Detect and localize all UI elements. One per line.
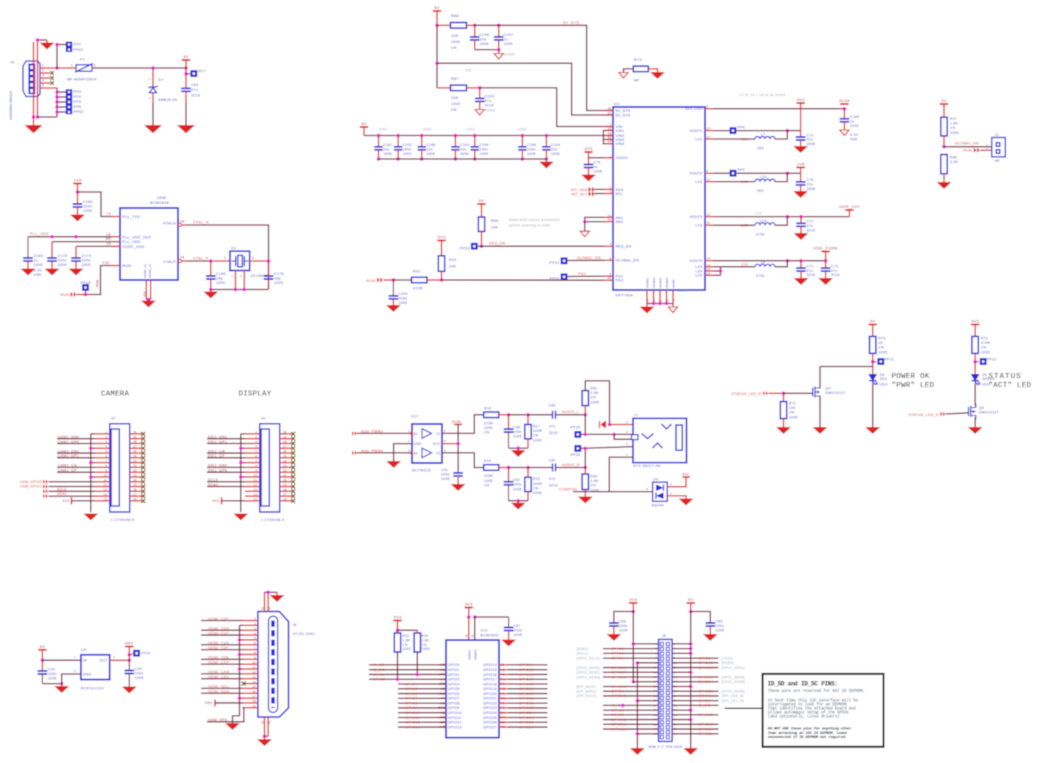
svg-text:1-1734248-5: 1-1734248-5: [261, 518, 285, 522]
capacitor C178 18p 1005: [268, 261, 270, 276]
power symbol H5V: [125, 646, 133, 648]
svg-text:HDMI_T1P: HDMI_T1P: [208, 631, 229, 635]
svg-text:13: 13: [253, 488, 257, 492]
svg-text:1.8K: 1.8K: [403, 638, 411, 642]
svg-text:AGND: AGND: [485, 109, 496, 113]
svg-text:COMPVID: COMPVID: [559, 487, 578, 491]
pin XTALN with ring: [178, 224, 186, 226]
power symbol 5V R86: [477, 203, 485, 205]
svg-text:RED: RED: [880, 377, 888, 381]
svg-text:GPIO10: GPIO10: [448, 711, 462, 715]
junction 5V bus: [689, 610, 693, 614]
svg-text:21: 21: [283, 473, 287, 477]
svg-text:GPIO21: GPIO21: [519, 697, 534, 701]
svg-text:GPIO13: GPIO13: [405, 725, 420, 729]
svg-text:GPIO0: GPIO0: [448, 663, 460, 667]
ground R66: [938, 183, 951, 189]
power symbol 5V input filter: [433, 10, 441, 12]
svg-text:C41: C41: [441, 468, 448, 472]
svg-text:3V3: 3V3: [797, 97, 805, 102]
svg-text:1005: 1005: [484, 479, 493, 483]
svg-text:(GPIO_GEN3): (GPIO_GEN3): [576, 675, 600, 679]
svg-text:HDMI_HPD: HDMI_HPD: [208, 718, 228, 722]
wire VOUT2: [714, 172, 788, 174]
svg-text:GPIO24: GPIO24: [698, 680, 713, 684]
svg-text:AUDIO_R: AUDIO_R: [562, 463, 580, 467]
svg-text:1005: 1005: [135, 676, 144, 680]
svg-text:100n: 100n: [513, 483, 522, 487]
junction R61 bottom: [584, 413, 588, 417]
power symbol 5V U9: [38, 649, 46, 651]
svg-text:3: 3: [105, 440, 107, 444]
wire AUDIO_L: [556, 414, 586, 416]
test point PP10: [873, 361, 877, 363]
svg-text:24: 24: [133, 459, 137, 463]
svg-text:NF: NF: [995, 159, 1001, 163]
svg-text:VCC: VCC: [433, 442, 441, 446]
junction VOUT2/L14: [786, 171, 790, 175]
svg-text:GLOBAL_EN: GLOBAL_EN: [955, 142, 979, 146]
junction VDDIO riser: [467, 615, 471, 619]
shield pins J6 bottom: [264, 717, 266, 736]
svg-text:STATUS: STATUS: [988, 373, 1021, 381]
wire 5V_SYS to U3: [475, 25, 613, 110]
svg-text:HDMI_CKN: HDMI_CKN: [208, 670, 230, 674]
connector J4 15-pin FFC: [260, 424, 280, 512]
svg-text:HDMI_T0N: HDMI_T0N: [208, 656, 229, 660]
pins J3 left: [95, 433, 110, 435]
svg-text:U1C: U1C: [480, 629, 488, 633]
svg-text:BAV99: BAV99: [652, 504, 664, 508]
capacitor C41 100n 1005: [453, 472, 463, 474]
svg-text:GPIO15: GPIO15: [519, 668, 534, 672]
svg-text:SDA0: SDA0: [208, 483, 219, 487]
svg-text:DSI1_CP: DSI1_CP: [208, 454, 225, 458]
svg-text:23: 23: [133, 464, 137, 468]
svg-text:1608: 1608: [480, 42, 489, 46]
svg-text:4: 4: [626, 430, 628, 434]
svg-text:7: 7: [105, 459, 107, 463]
svg-text:R88: R88: [451, 14, 459, 18]
svg-text:3216: 3216: [549, 431, 558, 435]
svg-text:5V: 5V: [361, 121, 367, 126]
svg-text:31: 31: [470, 634, 474, 638]
svg-text:DISPLAY: DISPLAY: [239, 391, 272, 399]
svg-text:CAM_GPIO1: CAM_GPIO1: [20, 485, 42, 489]
svg-text:VIN: VIN: [465, 69, 472, 73]
svg-text:GPIO10: GPIO10: [611, 685, 626, 689]
svg-text:VIN2: VIN2: [423, 128, 432, 132]
svg-text:C194: C194: [551, 143, 560, 147]
svg-text:PGND2: PGND2: [652, 277, 656, 288]
svg-text:STATUS_LED_R: STATUS_LED_R: [731, 392, 761, 396]
svg-text:GPIO5: GPIO5: [611, 708, 624, 712]
power symbol 5V LED: [869, 324, 877, 326]
pin stubs U5W left: [112, 216, 120, 218]
wire VIN bus top: [364, 135, 603, 137]
svg-text:3: 3: [408, 448, 410, 452]
svg-text:30: 30: [283, 430, 287, 434]
svg-text:1608: 1608: [807, 187, 816, 191]
svg-text:IN: IN: [83, 659, 87, 663]
svg-text:34: 34: [674, 718, 678, 722]
svg-text:BCM2836: BCM2836: [150, 201, 169, 205]
junction R60 top: [584, 466, 588, 470]
shield pins J6 top: [264, 592, 266, 611]
svg-text:Q5: Q5: [979, 406, 984, 410]
svg-text:4: 4: [255, 444, 257, 448]
wire R23 to R24 top: [398, 629, 418, 631]
svg-text:10K: 10K: [491, 226, 499, 230]
ground crystal: [210, 290, 212, 293]
resistor R70 1K: [870, 336, 876, 353]
svg-text:1V8: 1V8: [797, 162, 805, 167]
svg-text:C73: C73: [831, 264, 838, 268]
ic U1C BCM2836 GPIO bank: [446, 640, 499, 738]
ground C77: [795, 234, 808, 240]
svg-text:4: 4: [42, 79, 44, 83]
test point PP9 on VOUT2: [730, 170, 737, 177]
svg-text:GPIO5: GPIO5: [405, 687, 418, 691]
svg-text:47u: 47u: [807, 224, 814, 228]
svg-text:1005: 1005: [399, 301, 408, 305]
svg-text:GPIO23: GPIO23: [519, 706, 534, 710]
analog ground AN pins: [580, 231, 589, 237]
svg-text:AGND_13: AGND_13: [143, 264, 147, 278]
capacitor C72 22u 1608: [800, 131, 802, 137]
svg-text:3: 3: [646, 487, 648, 491]
svg-text:5V: 5V: [688, 597, 694, 602]
svg-text:12: 12: [253, 483, 257, 487]
resistor R47 1.8K: [941, 117, 947, 136]
wire shield top to ground: [38, 39, 48, 41]
svg-text:C183: C183: [34, 254, 44, 258]
pins U5W AGND bottom: [145, 280, 147, 300]
svg-text:NC7WZ16: NC7WZ16: [412, 469, 431, 473]
power symbol 1V8 PLL: [73, 183, 81, 185]
connector J8 40-pin header: [659, 639, 673, 741]
svg-text:10K: 10K: [789, 406, 796, 410]
wire LX4 bundle: [714, 266, 721, 268]
svg-text:3V3_LDO: 3V3_LDO: [685, 107, 702, 111]
svg-text:47151-1001: 47151-1001: [293, 632, 315, 636]
svg-text:28: 28: [133, 440, 137, 444]
svg-text:STATUS_LED_G: STATUS_LED_G: [908, 413, 938, 417]
junction pin4/pin5: [612, 433, 616, 437]
svg-text:S2: S2: [268, 606, 272, 610]
wire COMPVID to D4: [573, 491, 653, 493]
svg-text:GPIO1: GPIO1: [448, 668, 460, 672]
svg-text:1-1734248-5: 1-1734248-5: [111, 518, 135, 522]
svg-text:J2: J2: [995, 133, 999, 137]
junction shield bottom: [32, 115, 36, 119]
svg-text:3V3A: 3V3A: [452, 420, 462, 424]
ground C87: [502, 640, 515, 646]
svg-text:24: 24: [283, 459, 287, 463]
ground C85: [704, 635, 717, 641]
svg-text:XTAL_P: XTAL_P: [193, 257, 209, 261]
svg-text:1005: 1005: [451, 40, 460, 44]
svg-text:220n: 220n: [83, 205, 92, 209]
svg-text:C83: C83: [549, 404, 556, 408]
svg-text:U8: U8: [180, 220, 185, 224]
no-connect X pin2: [50, 71, 54, 75]
svg-text:5V_SYS: 5V_SYS: [563, 21, 579, 25]
svg-text:Y2: Y2: [436, 451, 441, 455]
svg-text:R42: R42: [413, 270, 421, 274]
svg-text:than attaching an I2C ID EEPRO: than attaching an I2C ID EEPROM. Leave: [768, 731, 848, 736]
svg-text:1: 1: [626, 453, 628, 457]
wire L7 out: [775, 131, 788, 139]
svg-text:13: 13: [103, 488, 107, 492]
ground C71: [795, 279, 808, 285]
ground U17: [387, 462, 400, 468]
svg-text:1005: 1005: [274, 281, 283, 285]
svg-text:1005: 1005: [715, 629, 724, 633]
led D6 RED power: [869, 375, 876, 381]
svg-text:PLL_VDD: PLL_VDD: [30, 232, 49, 236]
svg-text:3V3: 3V3: [682, 473, 689, 477]
resistor R19 100R: [527, 468, 529, 478]
svg-text:S3: S3: [261, 720, 265, 724]
svg-text:D7: D7: [159, 78, 164, 82]
junction 3V3A: [843, 107, 847, 111]
svg-text:11: 11: [254, 478, 258, 482]
svg-text:GPIO14: GPIO14: [483, 663, 497, 667]
svg-text:AUD_PWM1: AUD_PWM1: [361, 429, 383, 433]
wire D5 to Q5: [974, 385, 976, 406]
svg-text:40W 0.1" PIN HDR: 40W 0.1" PIN HDR: [648, 745, 683, 749]
wire J1 shield verticals: [33, 42, 35, 117]
svg-text:24: 24: [652, 298, 656, 302]
svg-text:NF: NF: [634, 79, 640, 83]
test point PP8 on VOUT1: [730, 127, 737, 134]
svg-text:GPIO13: GPIO13: [448, 725, 462, 729]
svg-text:3216: 3216: [191, 93, 200, 97]
svg-text:(SPI_SCLK): (SPI_SCLK): [576, 694, 596, 698]
svg-text:1611: 1611: [880, 383, 888, 387]
svg-text:GPIO2: GPIO2: [448, 673, 460, 677]
svg-text:23: 23: [646, 298, 650, 302]
svg-text:1%: 1%: [422, 643, 427, 647]
ground U5W: [142, 301, 155, 307]
svg-text:1%: 1%: [950, 126, 956, 130]
svg-text:AGND: AGND: [678, 289, 688, 293]
svg-text:47u: 47u: [549, 477, 556, 481]
power symbol 5V J8: [687, 602, 695, 604]
svg-text:1u: 1u: [504, 38, 509, 42]
svg-text:19: 19: [133, 483, 137, 487]
ground shield bottom: [33, 117, 35, 126]
svg-text:VDD_CORE: VDD_CORE: [813, 246, 838, 251]
svg-text:22u: 22u: [426, 147, 433, 151]
svg-text:GPIO16: GPIO16: [698, 723, 713, 727]
ground C174: [70, 269, 83, 275]
svg-text:J7: J7: [634, 414, 638, 418]
svg-text:PP3: PP3: [74, 90, 82, 94]
svg-text:HDMI_SCL: HDMI_SCL: [208, 685, 229, 689]
svg-text:C77: C77: [807, 220, 814, 224]
svg-text:1005: 1005: [403, 647, 411, 651]
svg-text:(SPI_CE0_N): (SPI_CE0_N): [721, 694, 744, 698]
ground Q4: [814, 428, 827, 434]
svg-text:39: 39: [653, 732, 657, 736]
svg-text:X5R: X5R: [850, 137, 858, 141]
junction 3V3 bus: [632, 610, 636, 614]
svg-text:1005: 1005: [619, 629, 628, 633]
svg-text:C189: C189: [850, 115, 859, 119]
svg-text:1%: 1%: [484, 483, 490, 487]
svg-text:ID_SC: ID_SC: [698, 704, 710, 708]
svg-text:1005: 1005: [479, 152, 488, 156]
svg-text:1: 1: [74, 655, 76, 659]
svg-text:1u: 1u: [850, 119, 854, 123]
svg-text:PP20: PP20: [141, 652, 151, 656]
capacitor C87 220n 1005: [508, 617, 510, 628]
pin J1 pin3 NC: [40, 77, 50, 79]
svg-text:U6: U6: [106, 232, 111, 236]
svg-text:C80: C80: [549, 459, 556, 463]
svg-text:GPIO15: GPIO15: [698, 661, 713, 665]
power symbol 3V3 pullups: [393, 620, 401, 622]
ground C84: [178, 126, 194, 133]
svg-text:F18: F18: [103, 261, 109, 265]
svg-text:PLL_VDD_OUT: PLL_VDD_OUT: [123, 235, 152, 239]
wire VCC pin5: [442, 443, 458, 445]
wire PG2 long: [442, 279, 605, 281]
svg-text:6.3V: 6.3V: [34, 269, 43, 273]
svg-text:1005: 1005: [58, 263, 67, 267]
svg-text:22u: 22u: [551, 147, 558, 151]
note box ID_SD and ID_SC PINS: [763, 674, 884, 747]
svg-text:(and optionally, Linux drivers: (and optionally, Linux drivers).: [768, 715, 842, 720]
svg-text:ID_SC: ID_SC: [373, 668, 385, 672]
ic U9 RT9741CGV: [81, 655, 110, 680]
wire L14 out: [775, 173, 788, 181]
svg-text:GPIO7: GPIO7: [405, 697, 418, 701]
svg-text:PG2: PG2: [616, 279, 624, 283]
svg-text:C75: C75: [594, 161, 601, 165]
svg-text:1005: 1005: [82, 263, 91, 267]
svg-text:LX4: LX4: [695, 274, 702, 278]
svg-text:V8: V8: [180, 256, 185, 260]
svg-text:GPIO6: GPIO6: [448, 692, 460, 696]
svg-text:47u: 47u: [191, 88, 198, 92]
svg-text:3: 3: [255, 440, 257, 444]
wire U9 gnd pin3: [62, 674, 81, 684]
svg-text:17: 17: [133, 492, 137, 496]
wire RUN to J2 pin2: [980, 149, 992, 151]
svg-text:22u: 22u: [460, 147, 467, 151]
svg-text:29: 29: [283, 435, 287, 439]
svg-text:RUN: RUN: [123, 264, 132, 268]
resistor R87 10R: [437, 87, 451, 89]
svg-text:CAM1_DN1: CAM1_DN1: [58, 449, 80, 453]
svg-text:C84: C84: [191, 83, 199, 87]
pins U3 bottom PGND AGND: [646, 290, 648, 304]
header PP2/PP61 test points: [66, 42, 72, 52]
svg-text:VDDIO: VDDIO: [616, 156, 629, 160]
svg-text:C180: C180: [83, 200, 93, 204]
wire gate Q5: [946, 413, 969, 414]
junction VOUT3/L13: [786, 215, 790, 219]
capacitor C38 100n 1005: [508, 415, 510, 429]
svg-text:C34: C34: [48, 667, 55, 671]
analog ground AGND C203: [475, 110, 484, 116]
ic U5W BCM2836 PLL section: [120, 208, 178, 280]
wire 3V3_LDO: [714, 108, 845, 110]
ground D6: [866, 428, 879, 434]
svg-text:5: 5: [444, 439, 446, 443]
svg-text:3216: 3216: [807, 228, 816, 232]
junction C71: [799, 259, 803, 263]
capacitor C186 100n 1005: [521, 134, 525, 138]
svg-text:4: 4: [444, 448, 446, 452]
junction C62: [507, 466, 511, 470]
junction C73: [824, 259, 828, 263]
resistor R60 1.8K: [582, 474, 588, 490]
svg-text:10K: 10K: [449, 265, 457, 269]
wires U1C right signals: [508, 664, 548, 666]
svg-text:3.3K: 3.3K: [950, 160, 959, 164]
svg-text:(GPIO_GEN0): (GPIO_GEN0): [576, 666, 600, 670]
led D5 GREEN status: [972, 375, 979, 381]
power symbol 3V3A: [840, 103, 848, 105]
svg-text:1005: 1005: [533, 491, 542, 495]
wire AUDIO_L down to PP25 row: [584, 415, 586, 435]
test point PP26: [574, 445, 581, 452]
wire VOUT3 to DDR_1V2: [787, 216, 849, 218]
svg-text:1005: 1005: [533, 438, 542, 442]
svg-text:GPIO18: GPIO18: [698, 666, 713, 670]
svg-text:18p: 18p: [216, 277, 223, 281]
capacitor C165 18p 1005: [210, 261, 212, 276]
power symbol VDD_CORE: [821, 251, 829, 253]
wire RUN to R42: [393, 279, 411, 281]
svg-text:GPIO27: GPIO27: [611, 671, 626, 675]
svg-text:PP9: PP9: [738, 168, 745, 172]
ground shield top: [46, 40, 48, 43]
svg-text:25: 25: [133, 454, 137, 458]
svg-text:GPIO21: GPIO21: [483, 697, 497, 701]
svg-text:1005: 1005: [83, 209, 92, 213]
svg-text:22: 22: [283, 468, 287, 472]
junction GLOBAL_EN divider: [942, 145, 946, 149]
junction C197: [497, 24, 501, 28]
wire fuse to 5V node: [92, 67, 186, 69]
svg-text:22: 22: [133, 468, 137, 472]
svg-text:1005: 1005: [48, 677, 57, 681]
svg-text:C86: C86: [619, 619, 626, 623]
ground J8 right: [684, 749, 697, 755]
svg-text:20: 20: [674, 684, 678, 688]
svg-text:S1: S1: [261, 606, 265, 610]
svg-text:PP61: PP61: [74, 48, 84, 52]
svg-text:3V3A: 3V3A: [839, 98, 850, 103]
svg-text:XR77004: XR77004: [615, 294, 633, 298]
svg-text:C202: C202: [403, 143, 412, 147]
svg-text:1005: 1005: [504, 42, 513, 46]
svg-text:AGND: AGND: [672, 278, 676, 288]
svg-text:2: 2: [94, 64, 96, 68]
svg-text:PGND3: PGND3: [659, 277, 663, 288]
svg-text:C71: C71: [807, 264, 814, 268]
svg-text:CAM1_CN: CAM1_CN: [58, 464, 77, 468]
svg-text:S4: S4: [268, 720, 272, 724]
test point PP20: [129, 654, 134, 655]
capacitor C197 1u 1005: [498, 25, 500, 37]
pin stubs U3 right: [705, 108, 714, 110]
